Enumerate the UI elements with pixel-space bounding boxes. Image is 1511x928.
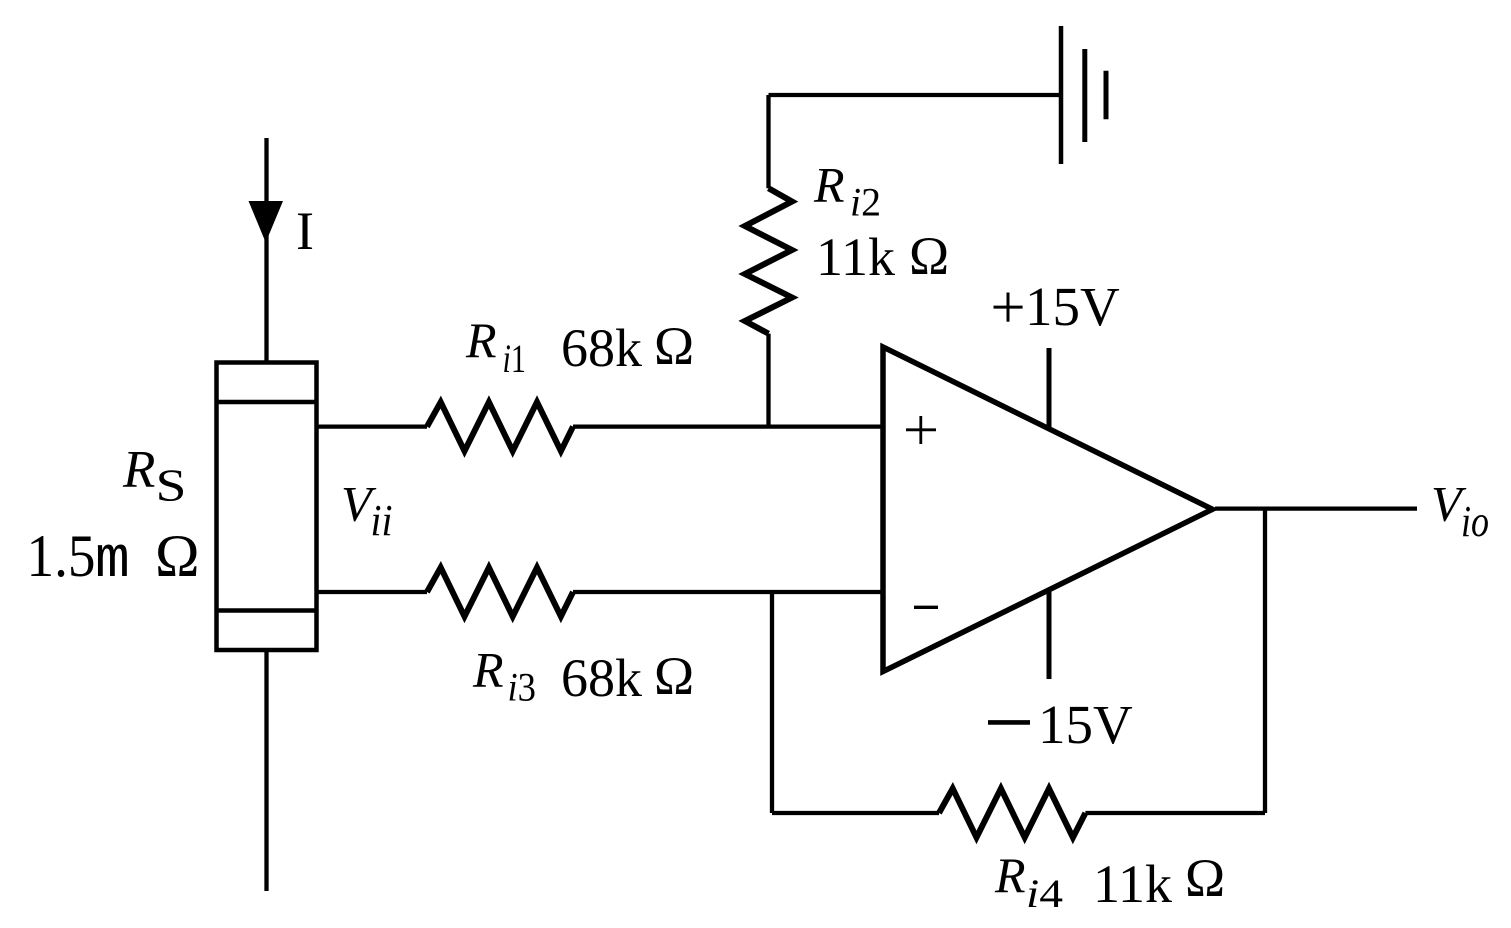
ground xyxy=(1061,26,1106,164)
svg-text:R: R xyxy=(994,847,1026,903)
resistor Ri3 xyxy=(427,568,573,617)
svg-text:i1: i1 xyxy=(503,336,527,381)
resistor Ri2 xyxy=(745,188,792,333)
op-amp inverting input symbol - xyxy=(914,606,938,609)
wire: Ri3 to op-amp inverting input xyxy=(573,590,883,594)
svg-text:15V: 15V xyxy=(1038,694,1133,755)
svg-text:R: R xyxy=(465,312,497,368)
wire: output xyxy=(1215,506,1417,510)
wire: Ri2 bottom lead / junction with + wire xyxy=(766,334,770,427)
svg-text:i4: i4 xyxy=(1026,871,1063,916)
svg-text:R: R xyxy=(472,642,504,698)
svg-text:ii: ii xyxy=(371,496,393,545)
shunt resistor RS body xyxy=(217,363,317,651)
svg-text:S: S xyxy=(156,461,187,511)
label -15V xyxy=(988,720,1030,725)
current arrow I xyxy=(249,201,284,243)
svg-text:i2: i2 xyxy=(850,179,881,224)
svg-text:Ω: Ω xyxy=(909,226,949,286)
svg-text:Ω: Ω xyxy=(155,523,200,589)
svg-text:io: io xyxy=(1461,497,1489,546)
svg-text:15V: 15V xyxy=(1025,276,1120,337)
resistor Ri4 xyxy=(939,789,1085,838)
wire: feedback bottom right segment xyxy=(1085,811,1265,815)
svg-text:1.5: 1.5 xyxy=(27,523,96,589)
svg-text:R: R xyxy=(122,441,155,499)
svg-text:68k: 68k xyxy=(561,318,642,378)
resistor Ri1 xyxy=(427,402,573,451)
wire: to ground xyxy=(769,93,1062,97)
op-amp noninverting input symbol + xyxy=(906,416,936,444)
wire: upper sense lead xyxy=(317,424,428,428)
svg-text:R: R xyxy=(813,156,845,212)
wire: feedback left vertical to inverting input xyxy=(770,592,774,813)
label +15V xyxy=(994,293,1023,322)
wire: current input lead xyxy=(264,138,268,363)
wire: feedback bottom left segment xyxy=(772,811,939,815)
wire: RS bottom lead xyxy=(264,650,268,891)
wire: feedback right vertical xyxy=(1263,509,1267,813)
svg-text:i3: i3 xyxy=(508,665,537,710)
svg-text:Ω: Ω xyxy=(654,316,694,376)
svg-text:Ω: Ω xyxy=(654,646,694,706)
-15V supply lead xyxy=(1047,590,1052,679)
wire: Ri1 to op-amp noninverting input xyxy=(573,424,883,428)
svg-text:Ω: Ω xyxy=(1185,848,1225,908)
svg-text:11k: 11k xyxy=(816,227,895,287)
wire: lower sense lead xyxy=(317,590,428,594)
svg-text:m: m xyxy=(95,529,130,594)
svg-text:I: I xyxy=(296,201,314,261)
svg-text:11k: 11k xyxy=(1093,854,1172,914)
op-amp U1 xyxy=(883,347,1213,672)
+15V supply lead xyxy=(1047,348,1052,428)
wire: Ri2 top lead xyxy=(766,95,770,188)
svg-text:68k: 68k xyxy=(561,648,642,708)
